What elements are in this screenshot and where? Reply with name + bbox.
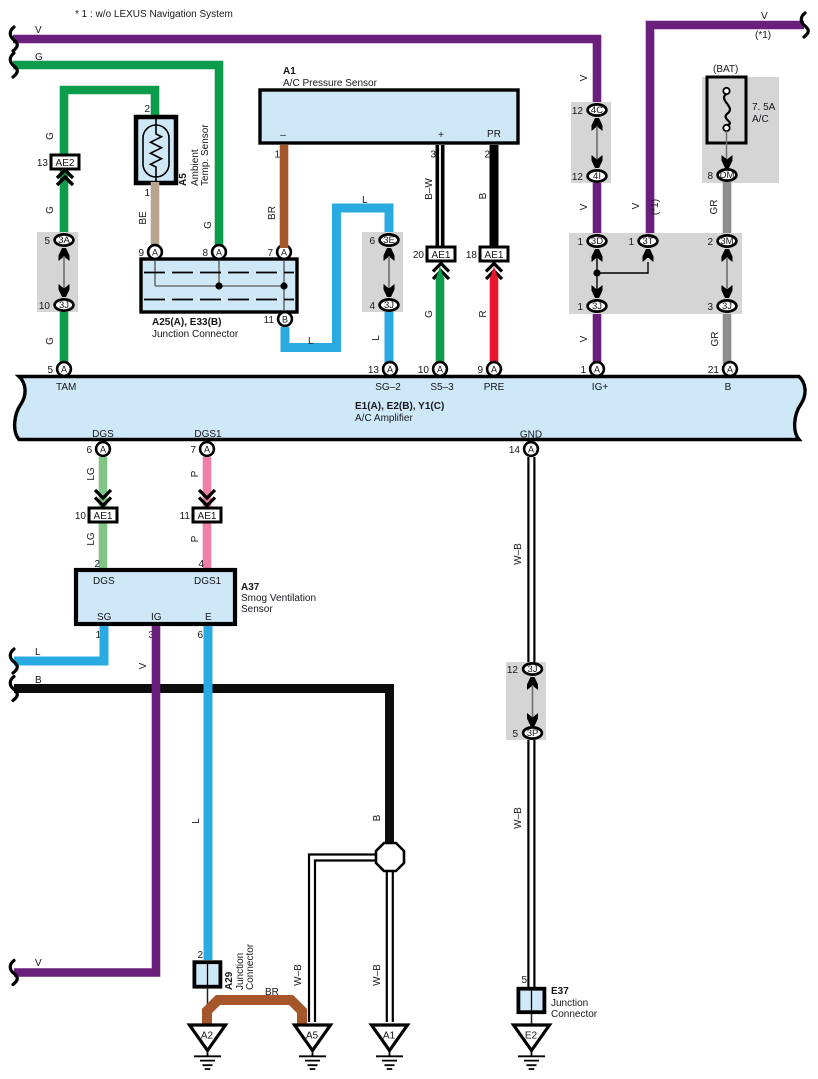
svg-text:12: 12: [572, 172, 584, 183]
pin 9 (A) of A25: [148, 245, 162, 259]
junction dot: [593, 269, 600, 276]
svg-text:AE1: AE1: [94, 511, 113, 522]
svg-text:7. 5A: 7. 5A: [752, 102, 776, 113]
arrow down into DM: [722, 155, 733, 168]
svg-text:P: P: [190, 470, 201, 477]
wire W-B octagon to A1 ground: [387, 871, 393, 1022]
arrow down into 3J: [59, 284, 70, 297]
svg-text:E2: E2: [525, 1031, 538, 1042]
wire L from A37 SG: [14, 626, 104, 661]
wire GR 3J to B: [723, 314, 732, 364]
svg-text:LG: LG: [86, 467, 97, 481]
wire B-W A1 pin3 to AE1: [436, 145, 445, 247]
splice block 3A/3J gray: [37, 232, 78, 312]
connector 3J (3): [718, 300, 737, 311]
svg-text:A5: A5: [306, 1031, 319, 1042]
wire break squiggle G left: [10, 53, 17, 77]
splice block 3D/3T/3M/3J gray: [569, 233, 742, 314]
wire GR DM to 3M: [723, 182, 732, 237]
svg-text:A/C: A/C: [752, 114, 769, 125]
connector 3M (2): [718, 235, 737, 246]
svg-text:3E: 3E: [383, 235, 395, 246]
svg-text:A: A: [152, 248, 158, 258]
splice block 3J/3P gray: [506, 662, 546, 740]
svg-text:L: L: [35, 647, 41, 658]
wire BR jumper A2 to A5 ground: [207, 1000, 302, 1026]
svg-text:4C: 4C: [591, 105, 603, 116]
svg-text:A1: A1: [283, 66, 296, 77]
wire G AE2 to 3A: [60, 167, 69, 236]
svg-text:3J: 3J: [722, 301, 732, 312]
svg-text:A: A: [491, 365, 497, 375]
svg-text:DM: DM: [720, 170, 735, 181]
svg-text:DGS1: DGS1: [194, 576, 222, 587]
connector 3J (12): [523, 663, 542, 674]
svg-text:A: A: [100, 445, 106, 455]
svg-text:V: V: [631, 202, 642, 209]
svg-text:1: 1: [628, 237, 634, 248]
svg-text:E: E: [205, 612, 212, 623]
wire BE A5 to junction connector: [151, 182, 160, 248]
svg-text:W–B: W–B: [513, 543, 524, 565]
svg-text:TAM: TAM: [56, 382, 76, 393]
svg-text:B: B: [372, 814, 383, 821]
connector 3E (6): [380, 234, 399, 245]
connector DM (8): [718, 169, 737, 180]
svg-text:Smog Ventilation: Smog Ventilation: [241, 593, 316, 604]
svg-text:6: 6: [86, 445, 92, 456]
svg-text:A: A: [387, 365, 393, 375]
svg-text:9: 9: [477, 365, 483, 376]
wire V (main feed, purple): [13, 39, 597, 106]
svg-text:A2: A2: [201, 1031, 214, 1042]
pin PRE 9(A): [487, 362, 501, 376]
connector 4C (12): [588, 104, 607, 115]
wire L A25 11(B) to 3E and 3J to SG-2: [285, 208, 389, 348]
svg-text:V: V: [579, 203, 590, 210]
wire thin between arrows: [388, 256, 390, 289]
wire V (*1) top right, purple: [650, 25, 804, 237]
connector 3J (1): [588, 300, 607, 311]
svg-text:2: 2: [197, 950, 203, 961]
svg-text:(*1): (*1): [755, 30, 771, 41]
wire thin fuse to DM: [726, 131, 728, 160]
pin SG-2 13(A): [383, 362, 397, 376]
svg-text:11: 11: [264, 315, 275, 326]
wire break squiggle L: [10, 649, 17, 673]
ground E2: [514, 1025, 550, 1069]
svg-text:3J: 3J: [59, 300, 69, 311]
wire BR A1 pin1 to 7(A): [280, 145, 289, 248]
svg-text:W–B: W–B: [293, 964, 304, 986]
connector AE1 (20): [427, 247, 455, 261]
svg-text:A: A: [594, 365, 600, 375]
connector 3A (5): [55, 234, 74, 245]
svg-text:B: B: [282, 315, 288, 325]
svg-text:12: 12: [507, 665, 519, 676]
svg-text:A: A: [528, 445, 534, 455]
connector AE2 (13): [51, 155, 79, 169]
ground A1: [372, 1025, 408, 1069]
svg-text:5: 5: [44, 236, 50, 247]
svg-text:1: 1: [580, 365, 586, 376]
svg-text:V: V: [761, 11, 768, 22]
arrow up into 3M: [722, 249, 733, 262]
svg-text:+: +: [438, 130, 444, 141]
svg-text:V: V: [35, 958, 42, 969]
ground A5: [295, 1025, 331, 1069]
svg-text:A: A: [61, 365, 67, 375]
svg-text:* 1 : w/o LEXUS Navigation Sys: * 1 : w/o LEXUS Navigation System: [75, 9, 233, 20]
wire R AE1 to PRE: [490, 278, 499, 364]
svg-text:7: 7: [190, 445, 196, 456]
svg-text:–: –: [280, 130, 286, 141]
svg-text:W–B: W–B: [372, 964, 383, 986]
junction connector A25(A),E33(B): [141, 259, 297, 340]
chevron into AE1 (18): [486, 264, 502, 280]
wire V 4I to 3D: [593, 183, 602, 237]
svg-text:E37: E37: [551, 986, 569, 997]
wire G 3J to TAM: [60, 310, 69, 364]
svg-text:V: V: [35, 25, 42, 36]
connector 3D (1): [588, 235, 607, 246]
chevron into AE1 (11): [199, 490, 215, 506]
wire thin between arrows: [63, 256, 65, 289]
svg-text:5: 5: [47, 365, 53, 376]
svg-text:B: B: [35, 675, 42, 686]
svg-text:Temp. Sensor: Temp. Sensor: [200, 124, 211, 186]
svg-text:A: A: [216, 248, 222, 258]
svg-text:SG–2: SG–2: [375, 382, 401, 393]
svg-text:(BAT): (BAT): [713, 64, 738, 75]
svg-text:Sensor: Sensor: [241, 604, 273, 615]
svg-text:E1(A), E2(B), Y1(C): E1(A), E2(B), Y1(C): [355, 401, 444, 412]
svg-text:4I: 4I: [593, 171, 601, 182]
arrow down into 3J left: [592, 285, 603, 298]
arrow up into 3J: [527, 677, 538, 690]
svg-text:10: 10: [418, 365, 430, 376]
svg-text:8: 8: [202, 248, 208, 259]
svg-text:18: 18: [466, 250, 478, 261]
chevron into AE1 (20): [433, 264, 449, 280]
svg-text:BR: BR: [265, 987, 279, 998]
svg-text:9: 9: [138, 248, 144, 259]
pin S5-3 10(A): [433, 362, 447, 376]
svg-text:7: 7: [267, 248, 273, 259]
svg-text:Connector: Connector: [551, 1009, 598, 1020]
connector 3T (1): [639, 235, 658, 246]
svg-text:SG: SG: [97, 612, 112, 623]
wire W-B octagon to A5 ground: [309, 855, 376, 1023]
arrow up into 3A: [59, 248, 70, 261]
junction connector A29: [194, 943, 256, 990]
wire W-B 3P to E37: [528, 740, 534, 987]
pin 8 (A) of A25: [212, 245, 226, 259]
svg-text:13: 13: [37, 158, 49, 169]
svg-text:V: V: [579, 335, 590, 342]
wire break squiggle V left: [10, 27, 17, 51]
fuse 7.5A A/C (BAT): [707, 64, 776, 143]
wire B A1 pin2 to AE1: [490, 145, 499, 247]
arrow down into 3P: [527, 713, 538, 726]
svg-text:A25(A), E33(B): A25(A), E33(B): [152, 317, 221, 328]
svg-text:1: 1: [144, 188, 150, 199]
wire G AE1 to S5-3: [436, 278, 445, 364]
svg-text:G: G: [203, 221, 214, 229]
connector AE1 (10): [89, 508, 117, 522]
sensor A1 A/C Pressure Sensor: [260, 66, 518, 143]
pin 7 (A) of A25: [277, 245, 291, 259]
svg-text:A1: A1: [383, 1031, 396, 1042]
svg-text:GR: GR: [709, 200, 720, 215]
wire W-B GND to 3J: [528, 457, 534, 664]
svg-text:5: 5: [521, 975, 527, 986]
svg-text:Junction: Junction: [551, 998, 588, 1009]
pin B 21(A): [723, 362, 737, 376]
svg-text:PRE: PRE: [484, 382, 505, 393]
svg-text:A: A: [727, 365, 733, 375]
chevron into AE2: [57, 170, 73, 185]
wire L from A37 E to A29: [204, 626, 213, 960]
svg-text:2: 2: [144, 104, 150, 115]
svg-text:IG+: IG+: [592, 382, 609, 393]
connector AE1 (11): [193, 508, 221, 522]
svg-text:V: V: [579, 74, 590, 81]
connector AE1 (18): [480, 247, 508, 261]
connector 3J (4): [380, 299, 399, 310]
wire break squiggle B: [10, 677, 17, 701]
pin 11 (B) of A25: [278, 312, 292, 326]
wire LG DGS to AE1: [99, 457, 108, 570]
svg-text:PR: PR: [487, 129, 501, 140]
wire B main lower: [14, 689, 390, 847]
svg-text:Junction Connector: Junction Connector: [152, 329, 239, 340]
arrow up into 3D: [592, 249, 603, 262]
arrow up into 3T: [643, 249, 654, 262]
sensor A37 Smog Ventilation Sensor: [76, 570, 316, 624]
sensor A5 Ambient Temp. Sensor: [136, 117, 211, 186]
svg-text:BR: BR: [267, 206, 278, 220]
svg-text:6: 6: [369, 236, 375, 247]
svg-text:A/C Amplifier: A/C Amplifier: [355, 413, 413, 424]
svg-text:AE1: AE1: [485, 250, 504, 261]
arrow up into 4C: [592, 118, 603, 131]
svg-text:3J: 3J: [527, 664, 537, 675]
svg-text:21: 21: [708, 365, 720, 376]
arrow up into 3E: [384, 248, 395, 261]
wire P DGS1 to AE1: [203, 457, 212, 570]
splice block 4C/4I gray: [571, 102, 611, 183]
ECU bar E1(A),E2(B),Y1(C) A/C Amplifier: [15, 377, 805, 440]
arrow down into 3J: [384, 284, 395, 297]
svg-text:1: 1: [577, 302, 583, 313]
svg-text:Connector: Connector: [245, 943, 256, 990]
wire thin between arrows: [596, 126, 598, 160]
svg-text:BE: BE: [138, 211, 149, 225]
wire V 3J to IG+: [593, 314, 602, 364]
svg-text:2: 2: [707, 237, 713, 248]
svg-text:8: 8: [707, 171, 713, 182]
svg-text:A5: A5: [178, 173, 189, 186]
svg-text:GND: GND: [520, 430, 542, 441]
svg-text:5: 5: [512, 729, 518, 740]
svg-text:AE2: AE2: [56, 158, 75, 169]
svg-text:W–B: W–B: [513, 807, 524, 829]
ground A2: [190, 1025, 226, 1069]
svg-text:G: G: [45, 206, 56, 214]
svg-text:AE1: AE1: [432, 250, 451, 261]
svg-text:A: A: [281, 248, 287, 258]
svg-text:10: 10: [39, 301, 51, 312]
svg-text:A: A: [204, 445, 210, 455]
svg-text:L: L: [191, 818, 202, 824]
svg-text:13: 13: [368, 365, 380, 376]
svg-text:1: 1: [274, 150, 280, 161]
svg-text:R: R: [478, 310, 489, 317]
wire thin 3M to 3J: [726, 257, 728, 290]
svg-text:3D: 3D: [591, 236, 603, 247]
connector 4I (12): [588, 170, 607, 181]
arrow down into 4I: [592, 155, 603, 168]
svg-text:L: L: [371, 335, 382, 341]
svg-text:P: P: [190, 535, 201, 542]
splice block 3E/3J gray: [362, 232, 403, 312]
wire V from A37 IG: [14, 626, 156, 973]
wire break squiggle V lower: [10, 961, 17, 985]
svg-text:20: 20: [413, 250, 425, 261]
svg-text:14: 14: [509, 445, 521, 456]
svg-text:G: G: [424, 310, 435, 318]
svg-text:3T: 3T: [642, 236, 653, 247]
svg-text:GR: GR: [710, 332, 721, 347]
svg-text:11: 11: [180, 511, 191, 522]
svg-text:IG: IG: [151, 612, 162, 623]
svg-text:A37: A37: [241, 582, 260, 593]
splice wiring 3D to 3J with branch to 3T: [597, 257, 648, 290]
svg-text:LG: LG: [86, 532, 97, 546]
svg-text:V: V: [138, 662, 149, 669]
svg-text:10: 10: [75, 511, 87, 522]
svg-text:6: 6: [197, 630, 203, 641]
svg-text:3J: 3J: [592, 301, 602, 312]
svg-text:G: G: [45, 337, 56, 345]
svg-text:(*1): (*1): [650, 199, 661, 215]
svg-text:A: A: [437, 365, 443, 375]
arrow down into 3J right: [722, 285, 733, 298]
svg-text:DGS: DGS: [93, 576, 115, 587]
svg-text:3: 3: [707, 302, 713, 313]
svg-text:B: B: [478, 192, 489, 199]
svg-text:G: G: [35, 52, 43, 63]
chevron into AE1 (10): [95, 490, 111, 506]
svg-text:B–W: B–W: [424, 178, 435, 200]
svg-text:3M: 3M: [720, 236, 733, 247]
pin TAM 5(A): [57, 362, 71, 376]
wire G (main feed, green): [13, 65, 219, 248]
svg-text:12: 12: [572, 106, 584, 117]
svg-text:A29: A29: [224, 971, 235, 990]
svg-text:L: L: [362, 195, 368, 206]
svg-text:1: 1: [577, 237, 583, 248]
svg-text:DGS: DGS: [92, 429, 114, 440]
junction connector E37: [518, 986, 597, 1020]
wire thin A29 to A2: [207, 987, 209, 1025]
svg-text:3J: 3J: [384, 300, 394, 311]
pin IG+ 1(A): [590, 362, 604, 376]
svg-text:3A: 3A: [58, 235, 70, 246]
wire break squiggle V right: [801, 13, 808, 37]
svg-text:S5–3: S5–3: [430, 382, 454, 393]
fuse block gray backing: [702, 77, 779, 183]
svg-text:4: 4: [369, 301, 375, 312]
connector 3P (5): [523, 727, 542, 738]
svg-text:B: B: [725, 382, 732, 393]
junction octagon: [376, 843, 404, 871]
svg-text:DGS1: DGS1: [194, 429, 222, 440]
wire G branch A5 pin2 to AE2: [64, 90, 155, 155]
svg-text:G: G: [45, 132, 56, 140]
svg-text:3P: 3P: [527, 728, 539, 739]
svg-text:A/C Pressure Sensor: A/C Pressure Sensor: [283, 78, 378, 89]
svg-text:L: L: [308, 336, 314, 347]
connector 3J (10): [55, 299, 74, 310]
wire thin between arrows: [532, 685, 534, 718]
wire thin E37 to E2: [531, 1014, 533, 1025]
svg-text:AE1: AE1: [198, 511, 217, 522]
